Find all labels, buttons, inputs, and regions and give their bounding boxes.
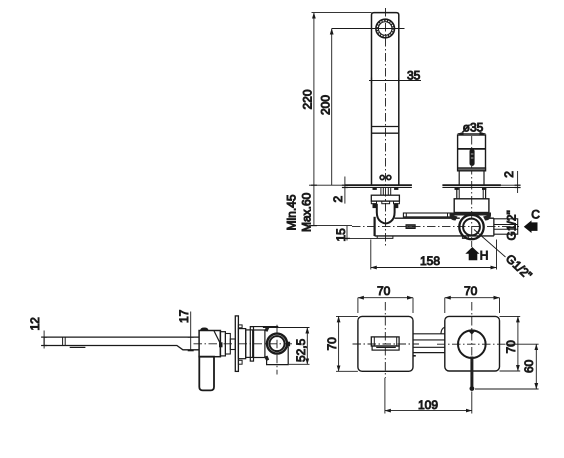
dim 2 right ext lines	[501, 184, 520, 186]
aerator outer circle	[376, 19, 395, 38]
svg-text:70: 70	[464, 284, 478, 298]
svg-text:52,5: 52,5	[294, 338, 308, 362]
dim 70 right ext lines	[500, 315, 521, 317]
dim 70 top-left line	[358, 297, 413, 299]
spout bottom edge	[44, 346, 199, 350]
cartridge stem slot	[470, 149, 474, 165]
top line to circle	[250, 326, 278, 328]
C arrow	[524, 220, 538, 233]
valve circle side outer	[267, 334, 287, 354]
cartridge stack	[225, 334, 230, 355]
handle head chamfer	[214, 331, 220, 343]
plate tab bottom	[238, 360, 242, 364]
svg-text:70: 70	[325, 337, 339, 351]
dim 2 left line	[344, 177, 346, 204]
circle v centerline	[276, 325, 278, 375]
handle grip	[199, 357, 214, 391]
cartridge neck	[458, 171, 460, 185]
bracket tab middle	[382, 201, 390, 204]
pipe step detail	[413, 355, 416, 357]
dim 60 bottom ext	[475, 388, 539, 390]
handle circle front	[458, 330, 486, 358]
right h centerline	[437, 343, 507, 345]
wall plate (spout)	[345, 184, 412, 186]
connecting pipe lines	[413, 333, 445, 335]
common ext line at pipe center	[309, 225, 352, 227]
dim 70 top-right ext lines	[444, 298, 446, 313]
left foot	[377, 236, 393, 239]
Min.45 / Max.60 dim line	[313, 185, 315, 225]
svg-text:200: 200	[318, 95, 332, 115]
dim 60 top ext	[508, 343, 539, 345]
dim 220 extension top	[312, 12, 372, 14]
wall plate (cartridge)	[442, 184, 501, 186]
spout vertical centerline	[385, 8, 387, 247]
pipe hook detail	[441, 327, 445, 334]
dim 70 left ext lines	[336, 315, 358, 317]
dim 35 line	[369, 80, 421, 82]
bracket clip left	[450, 215, 458, 221]
escutcheon plate side	[235, 316, 238, 372]
pipe centerline	[352, 226, 519, 228]
clip bottom dark	[264, 356, 269, 361]
svg-text:H: H	[480, 248, 489, 262]
bracket foot left	[373, 204, 376, 208]
spout front body	[371, 337, 399, 346]
screw hole right	[387, 175, 391, 179]
handle collar	[220, 332, 225, 356]
handle head	[199, 331, 220, 357]
body bottom line	[375, 235, 494, 237]
lower body outline	[267, 346, 289, 364]
dim 70 right line	[517, 316, 519, 371]
left square v centerline	[384, 302, 386, 378]
aerator horizontal crosshair / ext 200	[332, 28, 405, 30]
dim 70 top-left ext lines	[357, 298, 359, 313]
aerator joint	[62, 337, 64, 345]
body right edge	[494, 219, 518, 234]
mounting bracket	[371, 195, 399, 201]
cartridge seal band	[458, 168, 486, 171]
top tie bar	[403, 213, 451, 217]
elbow left drop	[374, 217, 376, 236]
right square plate	[445, 316, 500, 371]
dim 17 line	[190, 312, 192, 352]
leader to G1/2	[474, 230, 506, 258]
bracket foot right	[395, 204, 398, 208]
valve block	[454, 199, 489, 213]
dim 109 left ext	[384, 378, 386, 414]
cartridge cap line	[458, 148, 486, 150]
svg-text:Min.45: Min.45	[285, 194, 299, 230]
H arrow	[465, 247, 479, 260]
spout lip slot	[376, 346, 396, 348]
dim ø35 line	[458, 133, 486, 135]
plate nubs below	[455, 188, 458, 190]
cartridge vertical centerline	[471, 136, 473, 247]
right square v centerline	[471, 302, 473, 391]
cartridge body	[458, 135, 486, 171]
lever front	[470, 357, 473, 389]
svg-text:2: 2	[502, 171, 516, 178]
plate screws below	[373, 188, 376, 190]
svg-text:G1/2": G1/2"	[505, 210, 519, 240]
left square plate	[358, 316, 413, 371]
dim 70 left line	[338, 316, 340, 371]
dim 12 line	[43, 331, 45, 349]
dim 35 ticks	[371, 78, 373, 84]
spout front inner lines	[373, 337, 375, 346]
svg-text:ø35: ø35	[463, 120, 484, 134]
aerator knurled ring	[377, 21, 393, 37]
spout joint lines	[372, 126, 399, 128]
spout lip	[372, 346, 399, 350]
clip top dark	[264, 327, 269, 332]
svg-text:15: 15	[334, 228, 348, 242]
body block 3	[254, 330, 265, 358]
circle notch	[468, 331, 475, 335]
bracket tab right	[394, 201, 400, 204]
svg-text:60: 60	[522, 359, 536, 373]
bracket bar side	[250, 327, 253, 362]
dim 70 top-right line	[445, 297, 500, 299]
bracket bar dark	[450, 213, 491, 216]
dim 109 right ext	[471, 391, 473, 413]
screw hole left	[380, 175, 384, 179]
valve circle inner	[463, 219, 480, 236]
svg-text:70: 70	[377, 284, 391, 298]
spout column	[372, 13, 399, 186]
dim 15 bottom ext	[342, 237, 377, 239]
dim 220 line	[313, 13, 315, 186]
handle cap dark	[200, 328, 208, 331]
side centerline	[194, 343, 295, 345]
front h centerline	[353, 343, 420, 345]
dim 15 line	[346, 226, 348, 241]
bracket tab left	[371, 201, 376, 204]
dim 52,5 line	[306, 328, 308, 365]
valve circle side inner	[270, 336, 285, 351]
bracket clip right	[483, 215, 491, 221]
Min/Max plate ext	[309, 184, 345, 186]
lever tip blob	[470, 386, 475, 391]
valve circle outer	[459, 215, 483, 239]
stem nub dark	[219, 342, 223, 347]
plate tab top	[238, 325, 242, 328]
body block 1	[238, 329, 245, 359]
elbow U	[377, 204, 395, 224]
svg-text:70: 70	[504, 340, 518, 354]
right foot	[462, 236, 468, 239]
dim 109 line	[385, 410, 472, 412]
svg-text:109: 109	[418, 398, 438, 412]
svg-text:C: C	[531, 208, 540, 222]
dim 158 line	[371, 267, 497, 269]
aerator inner circle	[378, 22, 392, 36]
aerator slot	[70, 346, 86, 348]
spout tip	[43, 337, 45, 345]
dim 60 line	[535, 344, 537, 389]
dim 2 right line	[517, 171, 519, 193]
dim 200 line	[331, 29, 333, 186]
dim 52,5 top ext	[263, 327, 310, 329]
svg-text:220: 220	[301, 89, 315, 109]
svg-text:2: 2	[331, 196, 345, 203]
svg-text:G1/2": G1/2"	[503, 251, 535, 282]
svg-text:17: 17	[177, 309, 191, 323]
stem below plate	[380, 188, 382, 196]
pipe top line	[395, 217, 460, 219]
svg-text:158: 158	[420, 254, 440, 268]
svg-text:35: 35	[407, 68, 421, 82]
valve neck below plate	[456, 188, 458, 199]
svg-text:12: 12	[28, 317, 42, 331]
set screw on pipe	[406, 225, 415, 229]
dim 158 right ext	[496, 240, 498, 270]
spout top edge	[44, 336, 199, 338]
dim 52,5 bottom ext	[289, 363, 310, 365]
dim 158 left ext	[370, 240, 372, 270]
body block 2	[246, 330, 253, 358]
outlet nub dark	[287, 342, 290, 347]
